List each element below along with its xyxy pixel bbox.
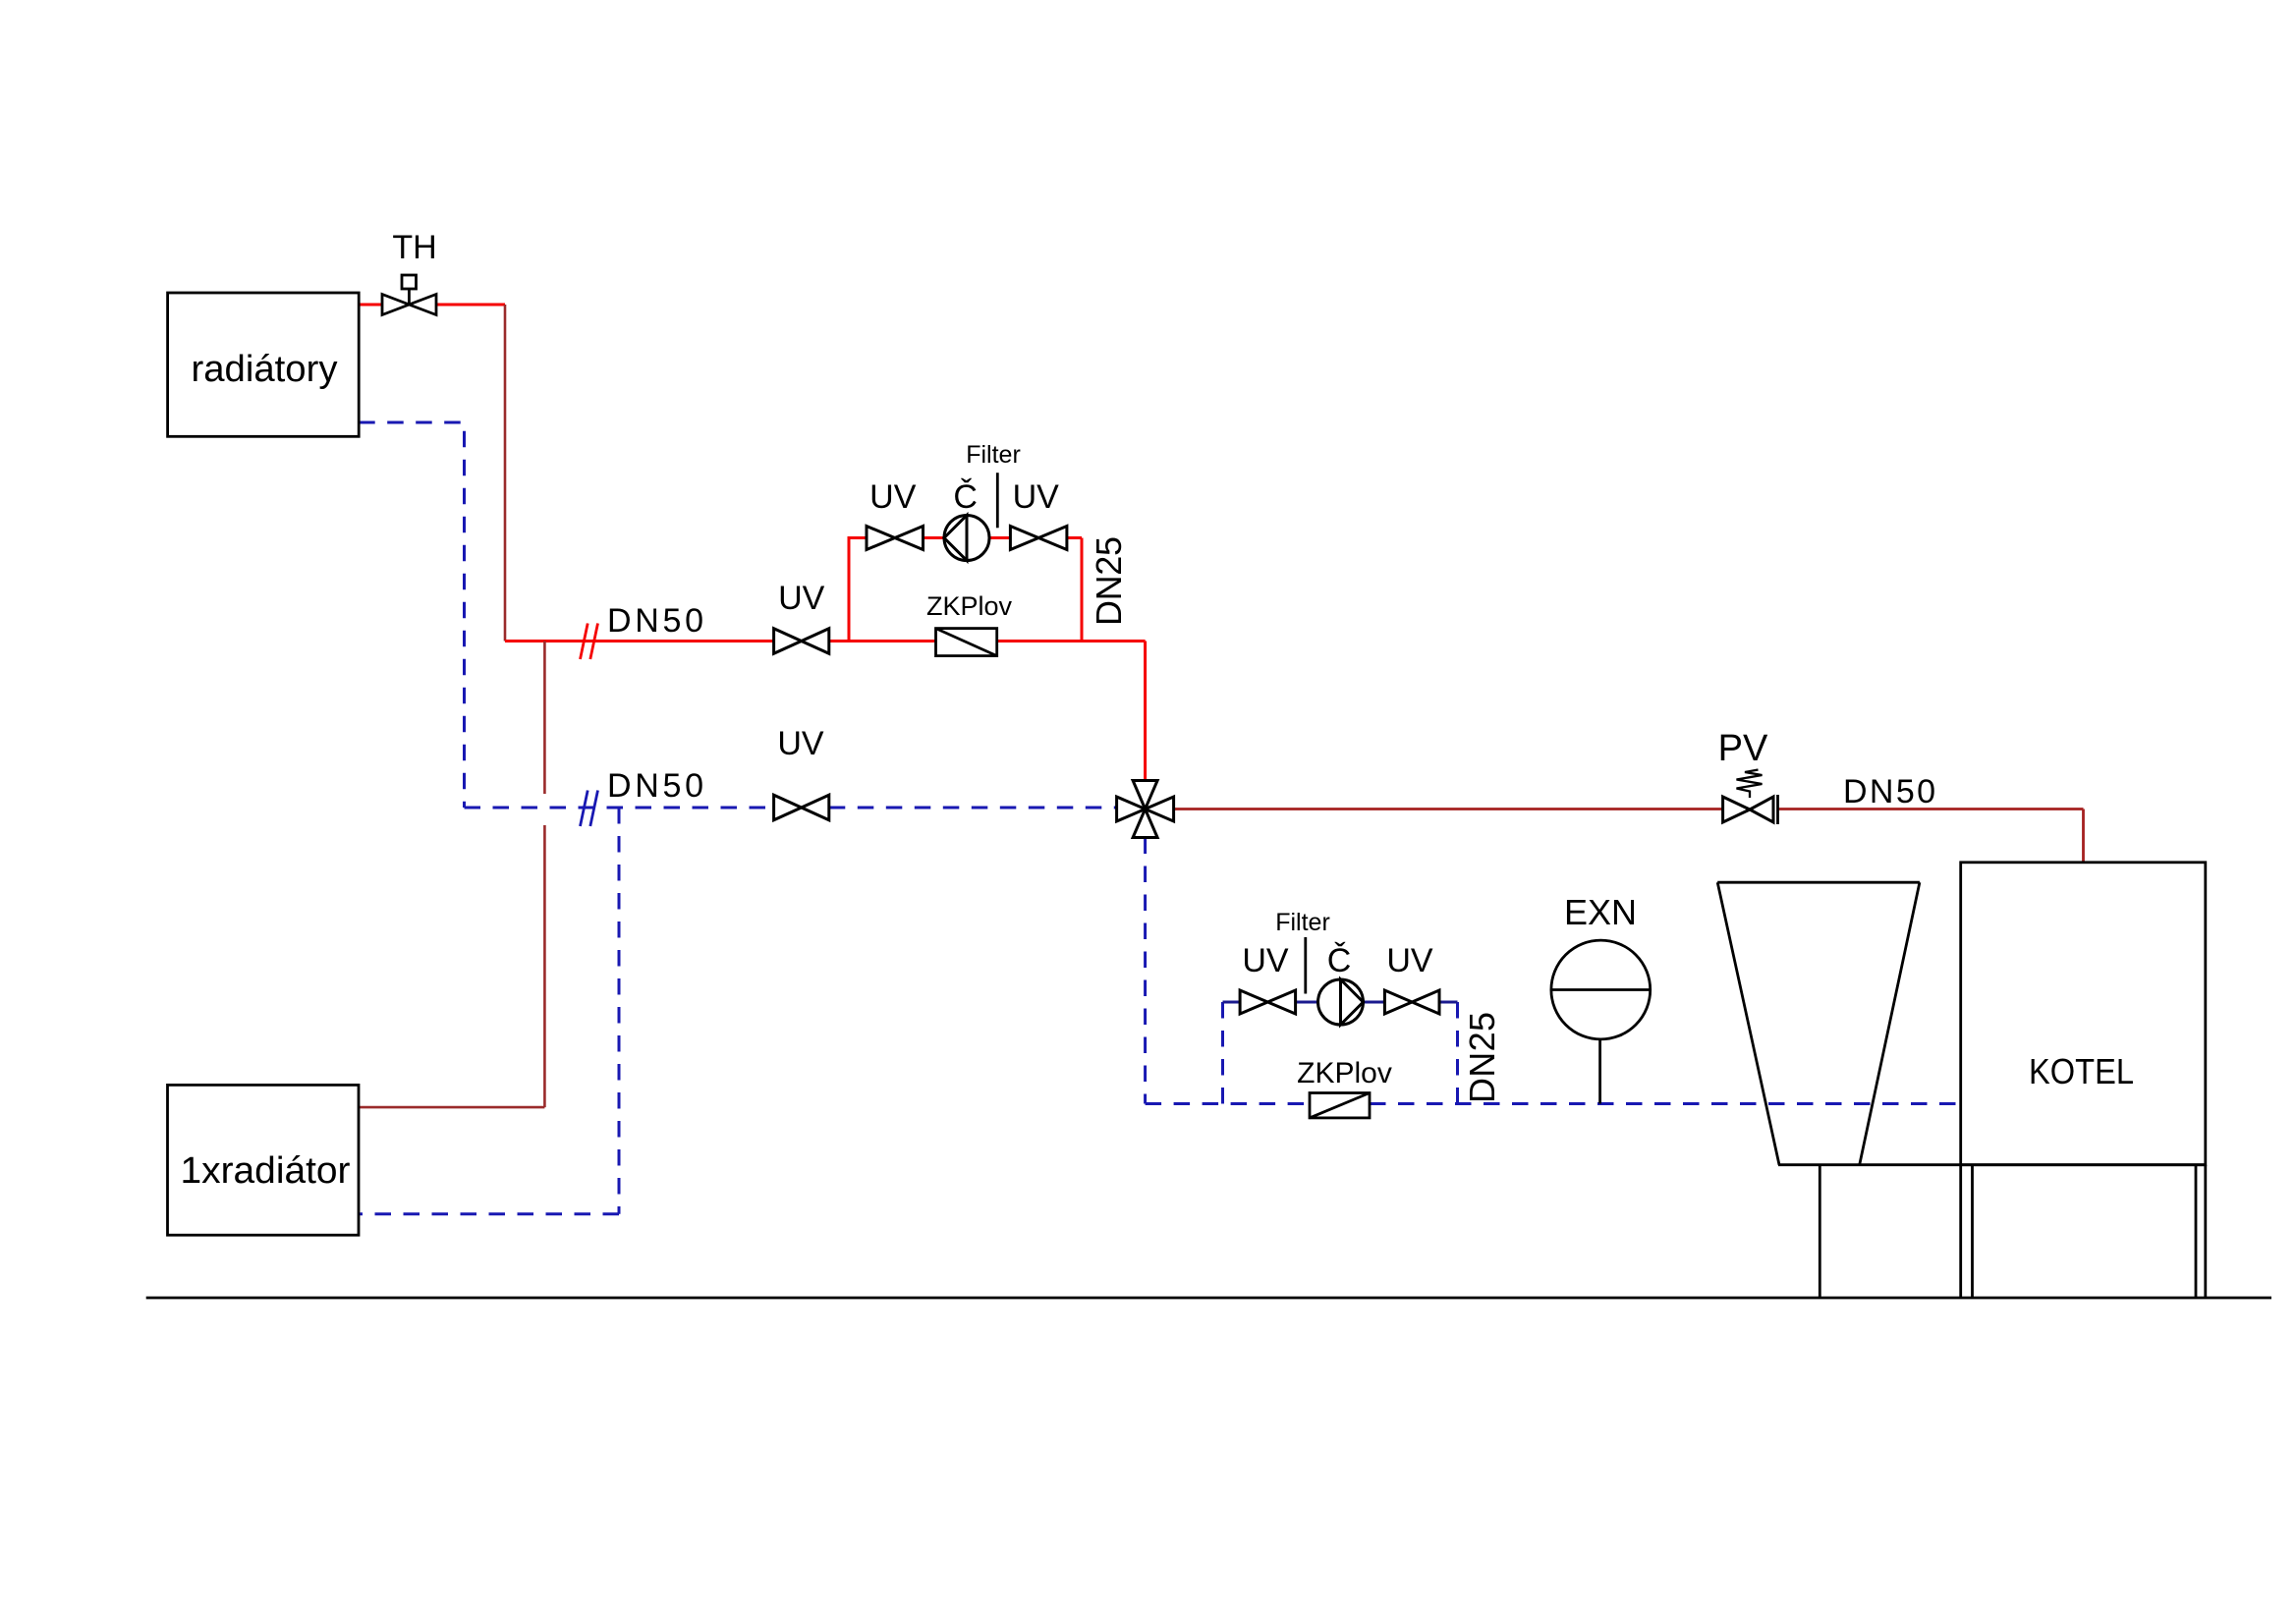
svg-text:UV: UV bbox=[777, 725, 824, 762]
svg-text:Č: Č bbox=[953, 478, 978, 516]
svg-text:1xradiátor: 1xradiátor bbox=[181, 1150, 351, 1192]
svg-text:PV: PV bbox=[1718, 728, 1768, 769]
svg-text:UV: UV bbox=[869, 478, 917, 516]
svg-text:DN25: DN25 bbox=[1089, 536, 1129, 626]
svg-text:Č: Č bbox=[1327, 942, 1352, 979]
svg-text:DN25: DN25 bbox=[1462, 1012, 1502, 1103]
svg-text:DN50: DN50 bbox=[1843, 773, 1935, 810]
svg-text:UV: UV bbox=[1013, 478, 1060, 516]
svg-text:TH: TH bbox=[392, 229, 436, 266]
svg-text:ZKPlov: ZKPlov bbox=[926, 591, 1013, 621]
svg-text:UV: UV bbox=[1386, 942, 1433, 979]
svg-text:DN50: DN50 bbox=[607, 767, 703, 805]
svg-text:EXN: EXN bbox=[1564, 892, 1637, 932]
svg-text:UV: UV bbox=[778, 580, 825, 617]
svg-text:radiátory: radiátory bbox=[192, 349, 338, 390]
svg-text:UV: UV bbox=[1242, 942, 1289, 979]
svg-text:ZKPlov: ZKPlov bbox=[1297, 1057, 1392, 1089]
svg-text:Filter: Filter bbox=[966, 441, 1021, 469]
svg-text:DN50: DN50 bbox=[607, 602, 703, 640]
svg-text:KOTEL: KOTEL bbox=[2029, 1051, 2134, 1091]
svg-text:Filter: Filter bbox=[1275, 909, 1330, 936]
